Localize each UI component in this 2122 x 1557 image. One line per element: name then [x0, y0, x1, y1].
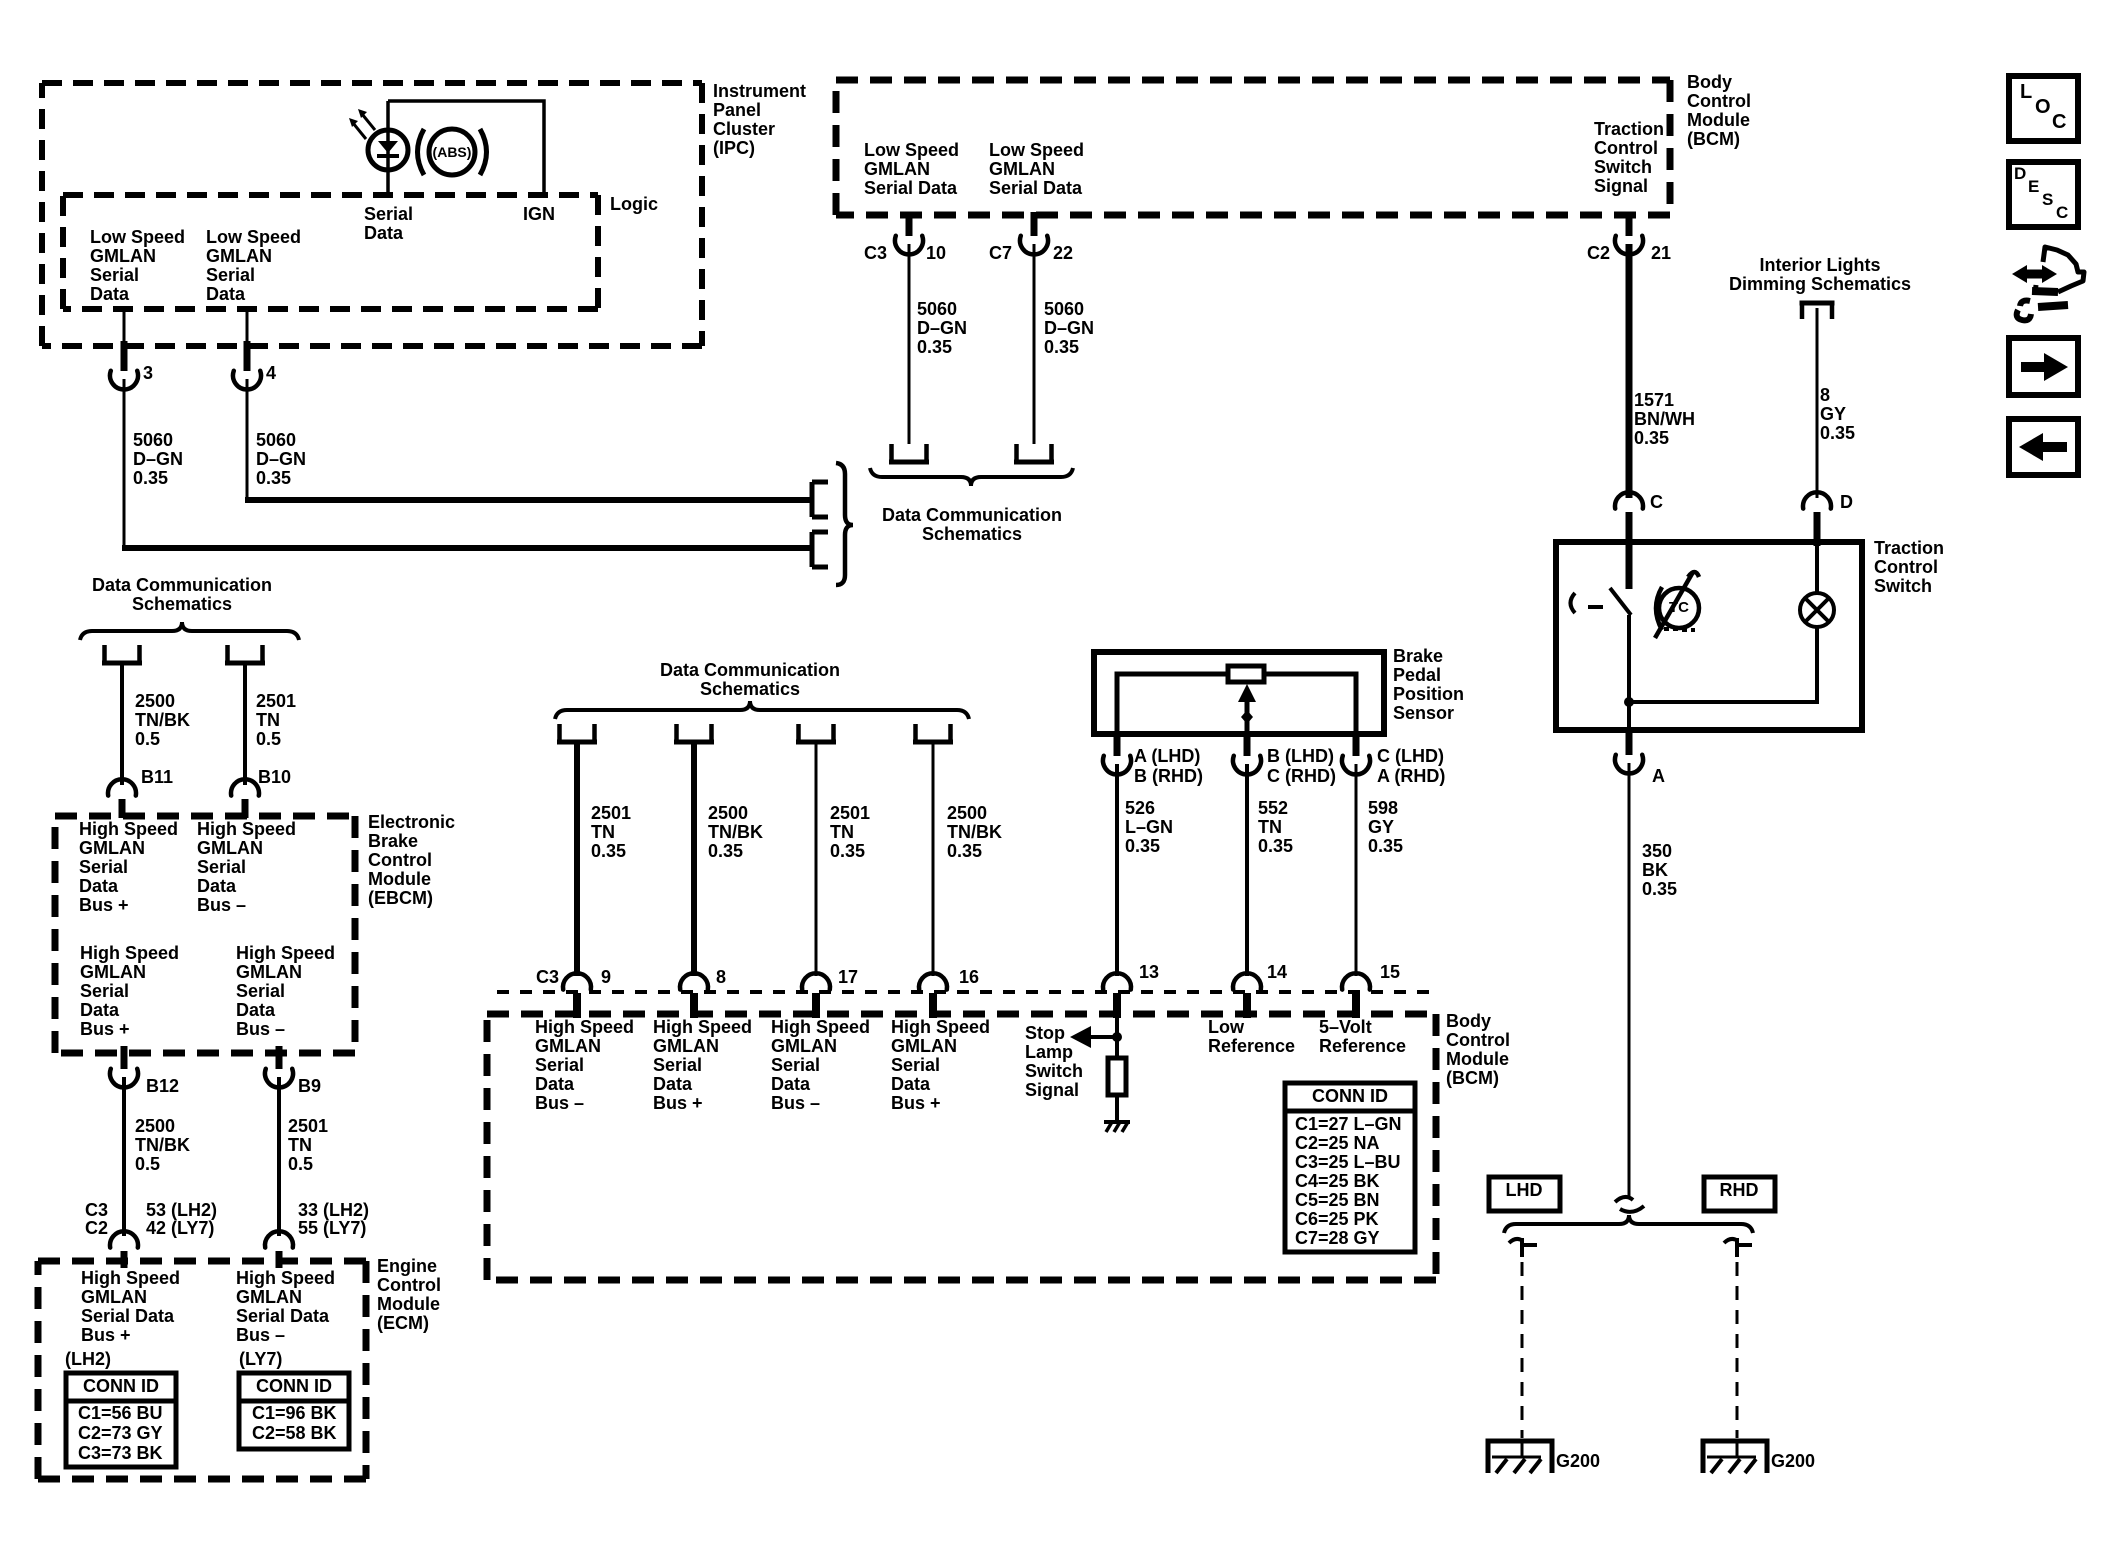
svg-text:2500: 2500 — [135, 1116, 175, 1136]
icon: LOC button — [2009, 76, 2078, 141]
svg-text:Switch: Switch — [1874, 576, 1932, 596]
svg-text:2500: 2500 — [947, 803, 987, 823]
svg-text:0.35: 0.35 — [917, 337, 952, 357]
svg-text:C3=73 BK: C3=73 BK — [78, 1443, 163, 1463]
svg-text:2501: 2501 — [288, 1116, 328, 1136]
svg-text:Control: Control — [1446, 1030, 1510, 1050]
ground: G200 (LHD) — [1488, 1441, 1552, 1473]
module box: Instrument Panel Cluster (IPC) — [42, 83, 702, 346]
svg-text:Data: Data — [206, 284, 246, 304]
svg-text:B12: B12 — [146, 1076, 179, 1096]
module box: IPC Logic block — [63, 195, 598, 309]
svg-text:Signal: Signal — [1594, 176, 1648, 196]
svg-text:Serial: Serial — [206, 265, 255, 285]
module box: Electronic Brake Control Module (EBCM) — [55, 816, 355, 1053]
svg-text:Brake: Brake — [1393, 646, 1443, 666]
lamp: switch illumination bulb — [1800, 593, 1834, 627]
svg-text:GMLAN: GMLAN — [90, 246, 156, 266]
svg-text:E: E — [2028, 177, 2039, 196]
svg-text:GMLAN: GMLAN — [236, 1287, 302, 1307]
svg-text:A: A — [1652, 766, 1665, 786]
symbol: ABS indicator ((ABS)) — [418, 129, 425, 175]
module box: Engine Control Module (ECM) — [38, 1261, 366, 1479]
svg-text:Low Speed: Low Speed — [989, 140, 1084, 160]
svg-text:C (RHD): C (RHD) — [1267, 766, 1336, 786]
wire: circuit 2500 to EBCM B11 — [120, 664, 124, 785]
svg-text:0.35: 0.35 — [133, 468, 168, 488]
wire: switch blade to output node — [1627, 615, 1631, 730]
junction: switch output node — [1624, 697, 1634, 707]
svg-text:Data: Data — [653, 1074, 693, 1094]
svg-text:C2: C2 — [1587, 243, 1610, 263]
svg-text:High Speed: High Speed — [197, 819, 296, 839]
svg-text:Serial: Serial — [79, 857, 128, 877]
connector: BCM bottom pin at x=1117 — [1103, 973, 1131, 989]
svg-text:D–GN: D–GN — [256, 449, 306, 469]
connector: switch pin A — [1626, 730, 1633, 755]
connector: BCM pin 22 (C7) — [1031, 212, 1038, 236]
svg-text:A (RHD): A (RHD) — [1377, 766, 1445, 786]
svg-text:C2=25 NA: C2=25 NA — [1295, 1133, 1380, 1153]
connector: source bracket wire 17 — [796, 724, 801, 740]
svg-text:C1=56 BU: C1=56 BU — [78, 1403, 163, 1423]
svg-text:8: 8 — [1820, 385, 1830, 405]
svg-text:RHD: RHD — [1720, 1180, 1759, 1200]
svg-text:5060: 5060 — [917, 299, 957, 319]
svg-text:L: L — [2020, 81, 2032, 103]
svg-text:TN/BK: TN/BK — [135, 1135, 190, 1155]
svg-text:Data: Data — [236, 1000, 276, 1020]
svg-text:High Speed: High Speed — [80, 943, 179, 963]
wire: circuit 2501 EBCM B9 to ECM — [277, 1077, 281, 1236]
connector: source bracket wire 16 — [913, 724, 918, 740]
svg-text:TN: TN — [830, 822, 854, 842]
svg-text:Reference: Reference — [1319, 1036, 1406, 1056]
svg-text:21: 21 — [1651, 243, 1671, 263]
svg-text:High Speed: High Speed — [81, 1268, 180, 1288]
svg-text:GMLAN: GMLAN — [236, 962, 302, 982]
connector: BCM bottom pin at x=577 — [563, 973, 591, 989]
svg-text:Serial: Serial — [653, 1055, 702, 1075]
wire: circuit 526 to BCM pin 13 — [1115, 764, 1119, 976]
svg-text:5060: 5060 — [1044, 299, 1084, 319]
svg-text:Schematics: Schematics — [922, 524, 1022, 544]
connector: switch pin D — [1803, 492, 1831, 508]
module box: Body Control Module (BCM) top — [836, 80, 1670, 215]
svg-text:GMLAN: GMLAN — [79, 838, 145, 858]
svg-text:42 (LY7): 42 (LY7) — [146, 1218, 214, 1238]
connector: BCM bottom pin at x=1356 — [1342, 973, 1370, 989]
potentiometer resistor element — [1228, 666, 1264, 682]
wire: circuit 350 BK to ground splice — [1628, 763, 1631, 1196]
svg-text:CONN ID: CONN ID — [83, 1376, 159, 1396]
svg-text:GMLAN: GMLAN — [197, 838, 263, 858]
svg-text:D: D — [2014, 164, 2026, 183]
svg-text:C2: C2 — [85, 1218, 108, 1238]
svg-text:B10: B10 — [258, 767, 291, 787]
svg-text:TN/BK: TN/BK — [708, 822, 763, 842]
svg-text:Control: Control — [368, 850, 432, 870]
svg-text:0.35: 0.35 — [830, 841, 865, 861]
svg-text:GY: GY — [1368, 817, 1394, 837]
svg-text:33 (LH2): 33 (LH2) — [298, 1200, 369, 1220]
wire: RHD ground wire (dashed) — [1736, 1262, 1739, 1438]
off-page connector bracket (pin 3 wire) — [812, 532, 828, 567]
svg-text:LHD: LHD — [1506, 1180, 1543, 1200]
indicator LED lamp: ABS warning lamp — [368, 130, 408, 170]
wire: circuit 2500 to BCM pin 8 — [691, 743, 697, 976]
svg-text:GMLAN: GMLAN — [80, 962, 146, 982]
connector: BCM pin 21 (C2) — [1626, 212, 1633, 236]
svg-text:22: 22 — [1053, 243, 1073, 263]
svg-text:C3: C3 — [864, 243, 887, 263]
svg-text:Module: Module — [377, 1294, 440, 1314]
brace: Data Communication Schematics source — [80, 622, 299, 640]
svg-text:0.35: 0.35 — [1820, 423, 1855, 443]
svg-text:Data: Data — [771, 1074, 811, 1094]
svg-text:Data: Data — [535, 1074, 575, 1094]
wire end continuation mark — [1615, 1197, 1644, 1212]
icon: DESC button — [2009, 162, 2078, 227]
svg-text:Low Speed: Low Speed — [864, 140, 959, 160]
svg-text:GMLAN: GMLAN — [864, 159, 930, 179]
svg-text:(EBCM): (EBCM) — [368, 888, 433, 908]
svg-text:Serial: Serial — [80, 981, 129, 1001]
svg-text:TN: TN — [288, 1135, 312, 1155]
svg-text:Panel: Panel — [713, 100, 761, 120]
svg-text:1571: 1571 — [1634, 390, 1674, 410]
svg-text:Control: Control — [1874, 557, 1938, 577]
wire: circuit 2501 to BCM pin 17 — [815, 743, 818, 976]
svg-text:(ECM): (ECM) — [377, 1313, 429, 1333]
icon: vehicle repair glyph — [2024, 270, 2044, 279]
svg-text:Data Communication: Data Communication — [882, 505, 1062, 525]
table: ECM CONN ID (LH2) — [66, 1373, 176, 1467]
wire: IPC pin 4 lead — [246, 309, 249, 341]
wire: lamp to switch output — [1629, 627, 1817, 702]
svg-text:Serial Data: Serial Data — [81, 1306, 175, 1326]
svg-text:Electronic: Electronic — [368, 812, 455, 832]
svg-text:0.35: 0.35 — [591, 841, 626, 861]
svg-text:Body: Body — [1446, 1011, 1491, 1031]
svg-text:Instrument: Instrument — [713, 81, 806, 101]
svg-text:C3=25 L–BU: C3=25 L–BU — [1295, 1152, 1401, 1172]
connector: source bracket wire 9 — [557, 724, 562, 740]
svg-text:Interior Lights: Interior Lights — [1760, 255, 1881, 275]
svg-text:53 (LH2): 53 (LH2) — [146, 1200, 217, 1220]
off-page connector bracket (pin 4 wire) — [812, 482, 828, 517]
svg-text:C6=25 PK: C6=25 PK — [1295, 1209, 1379, 1229]
svg-text:3: 3 — [143, 363, 153, 383]
wire: LED anode to IGN (top run) — [388, 101, 544, 196]
svg-text:Serial: Serial — [771, 1055, 820, 1075]
connector: sensor pin C(LHD)/A(RHD) — [1353, 733, 1360, 756]
brace: Data Communication Schematics (middle) — [555, 701, 969, 719]
svg-text:(LH2): (LH2) — [65, 1349, 111, 1369]
wire: circuit 598 to BCM pin 15 — [1355, 764, 1358, 976]
svg-text:Data: Data — [891, 1074, 931, 1094]
LED light arrows — [362, 114, 375, 130]
svg-text:0.35: 0.35 — [1634, 428, 1669, 448]
wire: LHD ground wire (dashed) — [1521, 1262, 1524, 1438]
wire: circuit 5060 from BCM pin 22 — [1033, 244, 1036, 444]
svg-text:L–GN: L–GN — [1125, 817, 1173, 837]
connector: ECM pin (Bus -) — [265, 1231, 293, 1247]
component box: Traction Control Switch — [1556, 542, 1862, 730]
label box: LHD — [1489, 1177, 1560, 1211]
connector: EBCM pin B11 — [108, 779, 136, 795]
svg-text:Signal: Signal — [1025, 1080, 1079, 1100]
svg-text:Module: Module — [1446, 1049, 1509, 1069]
svg-text:High Speed: High Speed — [236, 943, 335, 963]
svg-text:Bus –: Bus – — [197, 895, 246, 915]
svg-text:Serial: Serial — [891, 1055, 940, 1075]
wire: circuit 8 GY to switch pin D — [1816, 308, 1819, 498]
svg-text:Traction: Traction — [1594, 119, 1664, 139]
svg-text:Sensor: Sensor — [1393, 703, 1454, 723]
component box: Brake Pedal Position Sensor — [1094, 652, 1384, 734]
svg-text:GY: GY — [1820, 404, 1846, 424]
svg-text:IGN: IGN — [523, 204, 555, 224]
svg-text:2500: 2500 — [708, 803, 748, 823]
svg-text:10: 10 — [926, 243, 946, 263]
svg-text:GMLAN: GMLAN — [771, 1036, 837, 1056]
svg-text:Module: Module — [1687, 110, 1750, 130]
splice symbol RHD branch — [1724, 1239, 1738, 1243]
svg-text:Schematics: Schematics — [700, 679, 800, 699]
svg-text:B (RHD): B (RHD) — [1134, 766, 1203, 786]
svg-text:16: 16 — [959, 967, 979, 987]
wire: circuit 2501 to BCM pin 9 — [574, 743, 580, 976]
svg-text:High Speed: High Speed — [771, 1017, 870, 1037]
svg-text:Traction: Traction — [1874, 538, 1944, 558]
wire: circuit 5060 from pin 3 (vertical) — [123, 379, 126, 551]
svg-text:15: 15 — [1380, 962, 1400, 982]
connector: IPC pin 3 — [121, 341, 128, 371]
svg-text:CONN ID: CONN ID — [256, 1376, 332, 1396]
svg-text:Data: Data — [364, 223, 404, 243]
svg-text:Serial: Serial — [364, 204, 413, 224]
wire: circuit 5060 from BCM pin 10 — [908, 244, 911, 444]
svg-text:Low Speed: Low Speed — [206, 227, 301, 247]
svg-text:Data: Data — [79, 876, 119, 896]
svg-text:D–GN: D–GN — [133, 449, 183, 469]
svg-text:2501: 2501 — [256, 691, 296, 711]
connector: switch pin C — [1615, 492, 1643, 508]
svg-text:High Speed: High Speed — [653, 1017, 752, 1037]
svg-text:Data: Data — [197, 876, 237, 896]
svg-text:High Speed: High Speed — [236, 1268, 335, 1288]
svg-text:Bus +: Bus + — [891, 1093, 941, 1113]
svg-text:C7: C7 — [989, 243, 1012, 263]
svg-text:TN: TN — [1258, 817, 1282, 837]
module box: Body Control Module (BCM) bottom — [487, 1014, 1436, 1280]
connector: IPC pin 4 — [244, 341, 251, 371]
svg-text:TN/BK: TN/BK — [135, 710, 190, 730]
potentiometer wiper arrow — [1245, 697, 1250, 734]
svg-text:(BCM): (BCM) — [1446, 1068, 1499, 1088]
svg-text:Cluster: Cluster — [713, 119, 775, 139]
svg-text:C2=58 BK: C2=58 BK — [252, 1423, 337, 1443]
svg-text:B9: B9 — [298, 1076, 321, 1096]
svg-text:0.5: 0.5 — [135, 1154, 160, 1174]
connector: BCM bottom pin at x=694 — [680, 973, 708, 989]
svg-text:2500: 2500 — [135, 691, 175, 711]
svg-text:4: 4 — [266, 363, 276, 383]
table: BCM CONN ID — [1285, 1083, 1415, 1252]
svg-text:Bus –: Bus – — [236, 1019, 285, 1039]
svg-text:B (LHD): B (LHD) — [1267, 746, 1334, 766]
svg-text:C: C — [2056, 203, 2068, 222]
connector: BCM bottom pin at x=816 — [802, 973, 830, 989]
symbol: TC (traction control) icon — [1659, 588, 1699, 628]
svg-text:Serial: Serial — [90, 265, 139, 285]
ground: G200 (RHD) — [1703, 1441, 1767, 1473]
svg-text:G200: G200 — [1556, 1451, 1600, 1471]
svg-text:GMLAN: GMLAN — [206, 246, 272, 266]
svg-text:598: 598 — [1368, 798, 1398, 818]
splice symbol LHD branch — [1509, 1239, 1523, 1243]
svg-text:C4=25 BK: C4=25 BK — [1295, 1171, 1380, 1191]
wire: circuit 2501 to EBCM B10 — [243, 664, 247, 785]
svg-text:High Speed: High Speed — [535, 1017, 634, 1037]
svg-text:552: 552 — [1258, 798, 1288, 818]
connector: EBCM pin B12 — [121, 1046, 128, 1069]
wire: pin D to lamp — [1815, 546, 1819, 593]
svg-text:Bus +: Bus + — [80, 1019, 130, 1039]
svg-text:BN/WH: BN/WH — [1634, 409, 1695, 429]
svg-text:High Speed: High Speed — [79, 819, 178, 839]
svg-text:GMLAN: GMLAN — [653, 1036, 719, 1056]
svg-text:Switch: Switch — [1025, 1061, 1083, 1081]
svg-text:5060: 5060 — [133, 430, 173, 450]
wire: IPC pin 3 lead — [123, 309, 126, 341]
switch: traction control momentary switch — [1626, 542, 1633, 589]
resistor: BCM internal pull resistor — [1108, 1058, 1126, 1095]
connector: sensor pin A(LHD)/B(RHD) — [1114, 733, 1121, 756]
svg-text:D–GN: D–GN — [917, 318, 967, 338]
svg-text:8: 8 — [716, 967, 726, 987]
svg-text:0.5: 0.5 — [135, 729, 160, 749]
svg-text:Low: Low — [1208, 1017, 1245, 1037]
svg-text:C3: C3 — [536, 967, 559, 987]
svg-text:Engine: Engine — [377, 1256, 437, 1276]
svg-text:0.35: 0.35 — [1258, 836, 1293, 856]
svg-text:B11: B11 — [141, 767, 173, 787]
svg-text:C1=96 BK: C1=96 BK — [252, 1403, 337, 1423]
svg-text:0.35: 0.35 — [708, 841, 743, 861]
svg-text:Data: Data — [80, 1000, 120, 1020]
svg-text:BK: BK — [1642, 860, 1668, 880]
table: ECM CONN ID (LY7) — [239, 1373, 349, 1449]
svg-text:Control: Control — [377, 1275, 441, 1295]
svg-text:Serial: Serial — [535, 1055, 584, 1075]
svg-text:GMLAN: GMLAN — [989, 159, 1055, 179]
svg-text:A (LHD): A (LHD) — [1134, 746, 1200, 766]
svg-text:14: 14 — [1267, 962, 1287, 982]
svg-text:CONN ID: CONN ID — [1312, 1086, 1388, 1106]
svg-text:Bus –: Bus – — [236, 1325, 285, 1345]
svg-text:TN/BK: TN/BK — [947, 822, 1002, 842]
svg-text:Reference: Reference — [1208, 1036, 1295, 1056]
svg-text:Low Speed: Low Speed — [90, 227, 185, 247]
svg-text:Control: Control — [1687, 91, 1751, 111]
svg-text:13: 13 — [1139, 962, 1159, 982]
svg-text:0.35: 0.35 — [947, 841, 982, 861]
icon: previous arrow button — [2009, 419, 2078, 475]
connector: source bracket right (circuit 2501) — [225, 645, 230, 661]
ground: BCM internal ground — [1104, 1120, 1130, 1124]
svg-text:(ABS): (ABS) — [433, 144, 472, 160]
wire: sensor internal left — [1117, 674, 1228, 734]
connector: sensor pin B(LHD)/C(RHD) — [1244, 733, 1251, 756]
svg-text:C7=28 GY: C7=28 GY — [1295, 1228, 1380, 1248]
svg-text:Stop: Stop — [1025, 1023, 1065, 1043]
connector: source bracket wire 8 — [674, 724, 679, 740]
svg-text:0.35: 0.35 — [1044, 337, 1079, 357]
connector: BCM pin 10 (C3) — [906, 212, 913, 236]
wire: circuit 2500 to BCM pin 16 — [932, 743, 935, 976]
svg-text:GMLAN: GMLAN — [535, 1036, 601, 1056]
svg-text:Serial Data: Serial Data — [989, 178, 1083, 198]
label box: RHD — [1704, 1177, 1775, 1211]
wire: LED cathode to Serial Data pin — [386, 101, 390, 196]
wire: circuit 1571 from BCM pin 21 to switch pin C — [1626, 244, 1633, 498]
svg-text:Data Communication: Data Communication — [92, 575, 272, 595]
svg-text:S: S — [2042, 190, 2053, 209]
svg-text:(IPC): (IPC) — [713, 138, 755, 158]
svg-text:Pedal: Pedal — [1393, 665, 1441, 685]
signal arrow: Stop Lamp Switch Signal — [1088, 1035, 1117, 1039]
svg-text:0.5: 0.5 — [288, 1154, 313, 1174]
svg-text:D–GN: D–GN — [1044, 318, 1094, 338]
svg-text:0.35: 0.35 — [1125, 836, 1160, 856]
svg-text:0.5: 0.5 — [256, 729, 281, 749]
brace: LHD/RHD variant split — [1504, 1215, 1753, 1233]
icon: next arrow button — [2009, 338, 2078, 395]
svg-text:Data: Data — [90, 284, 130, 304]
connector: BCM bottom pin at x=933 — [919, 973, 947, 989]
brace: to Data Communication Schematics — [836, 463, 853, 585]
svg-text:0.35: 0.35 — [1368, 836, 1403, 856]
svg-text:Lamp: Lamp — [1025, 1042, 1073, 1062]
svg-text:2501: 2501 — [830, 803, 870, 823]
svg-text:Serial: Serial — [236, 981, 285, 1001]
svg-text:Module: Module — [368, 869, 431, 889]
svg-text:5060: 5060 — [256, 430, 296, 450]
svg-text:D: D — [1840, 492, 1853, 512]
wire: circuit 552 to BCM pin 14 — [1245, 764, 1249, 976]
svg-text:C: C — [2052, 111, 2066, 133]
svg-text:Schematics: Schematics — [132, 594, 232, 614]
svg-text:Bus +: Bus + — [653, 1093, 703, 1113]
svg-text:C (LHD): C (LHD) — [1377, 746, 1444, 766]
svg-text:C5=25 BN: C5=25 BN — [1295, 1190, 1380, 1210]
connector: EBCM pin B10 — [231, 779, 259, 795]
connector: EBCM pin B9 — [276, 1046, 283, 1069]
connector: BCM bottom pin at x=1247 — [1233, 973, 1261, 989]
connector row line (BCM bottom C-row) — [497, 990, 1436, 994]
svg-text:C1=27 L–GN: C1=27 L–GN — [1295, 1114, 1402, 1134]
brace: to Data Communication Schematics (BCM pair) — [870, 468, 1073, 486]
wire: circuit 5060 from pin 4 (vertical) — [246, 379, 249, 503]
svg-text:0.35: 0.35 — [256, 468, 291, 488]
svg-text:0.35: 0.35 — [1642, 879, 1677, 899]
connector: ECM pin (Bus +) — [110, 1231, 138, 1247]
svg-text:Serial Data: Serial Data — [864, 178, 958, 198]
svg-text:Bus +: Bus + — [81, 1325, 131, 1345]
svg-text:GMLAN: GMLAN — [81, 1287, 147, 1307]
